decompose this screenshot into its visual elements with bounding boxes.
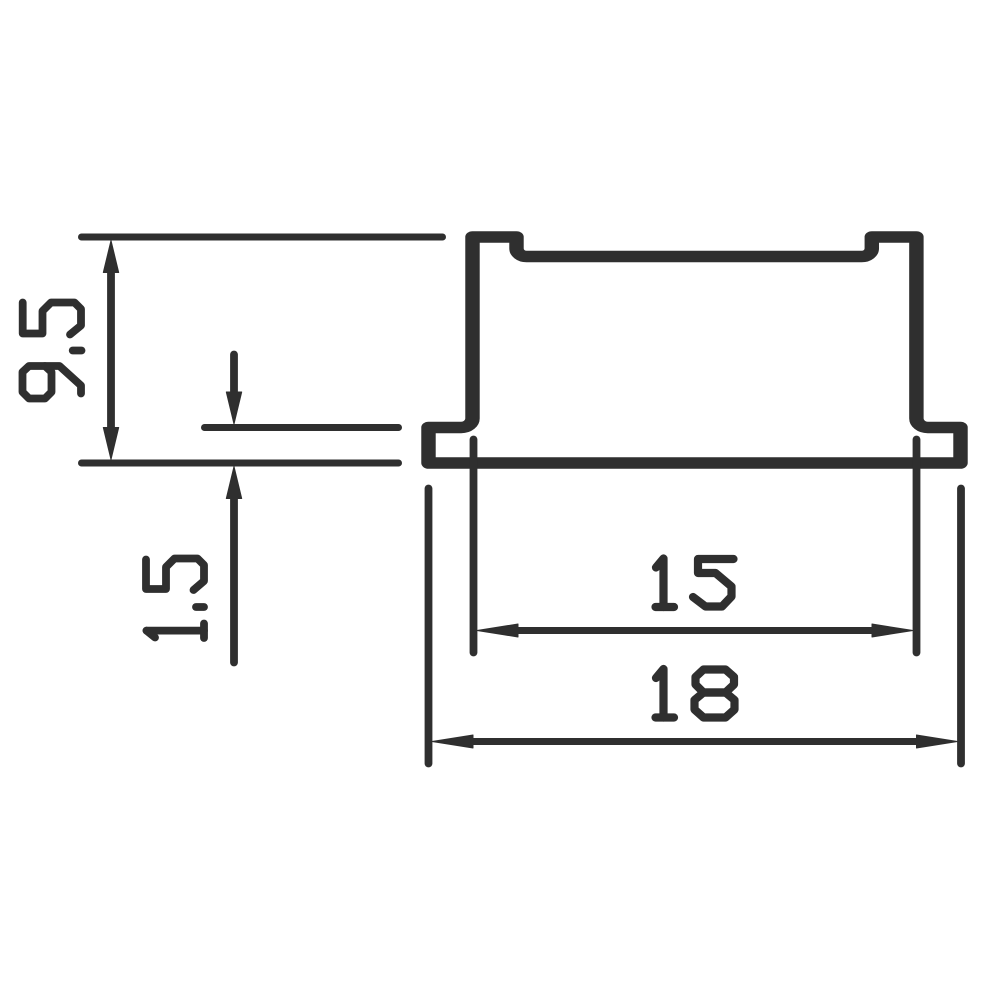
arrow right (15) [872, 624, 913, 637]
digit 1 [656, 669, 664, 718]
comma [196, 603, 204, 611]
dimension line 1,5 upper [230, 355, 238, 393]
digit 5 [23, 303, 81, 335]
extension line upper (1,5) [205, 424, 399, 431]
text 9,5 (rotated digits) [23, 303, 82, 399]
dimension line 15 [518, 627, 872, 634]
digit 1 serif [200, 624, 208, 639]
extension line 15 left [470, 440, 478, 653]
dimension line 1,5 lower [230, 498, 238, 663]
digit 8 upper ring [696, 670, 735, 693]
dimension line 18 [473, 738, 917, 745]
extension line 18 left [425, 489, 433, 764]
arrow left (15) [477, 624, 518, 637]
digit 9 tail [45, 366, 81, 394]
digit 8 lower ring [695, 693, 735, 718]
digit 1 [656, 559, 664, 608]
arrow down (9,5) [103, 428, 118, 460]
extension line 15 right [913, 440, 921, 653]
extension line bottom (9,5 / 1,5) [82, 460, 399, 467]
digit 9 bowl [23, 366, 52, 399]
digit 1 stem [147, 627, 205, 635]
text 1,5 (rotated digits) [146, 559, 204, 639]
dimension line 9,5 [107, 272, 115, 428]
text 15 [656, 559, 734, 608]
arrow left (18) [432, 735, 473, 748]
arrow down to gap (1,5) [226, 392, 241, 424]
digit 1 flag [147, 631, 156, 638]
extension line top (9,5) [82, 234, 443, 241]
arrow up to gap (1,5) [226, 467, 241, 499]
digit 5 [693, 559, 734, 607]
arrow right (18) [917, 735, 958, 748]
arrow up (9,5) [103, 241, 118, 273]
profile outline [428, 237, 960, 463]
extension line 18 right [957, 489, 965, 764]
digit 5 [146, 559, 204, 591]
text 18 [656, 669, 735, 718]
comma [73, 347, 82, 355]
